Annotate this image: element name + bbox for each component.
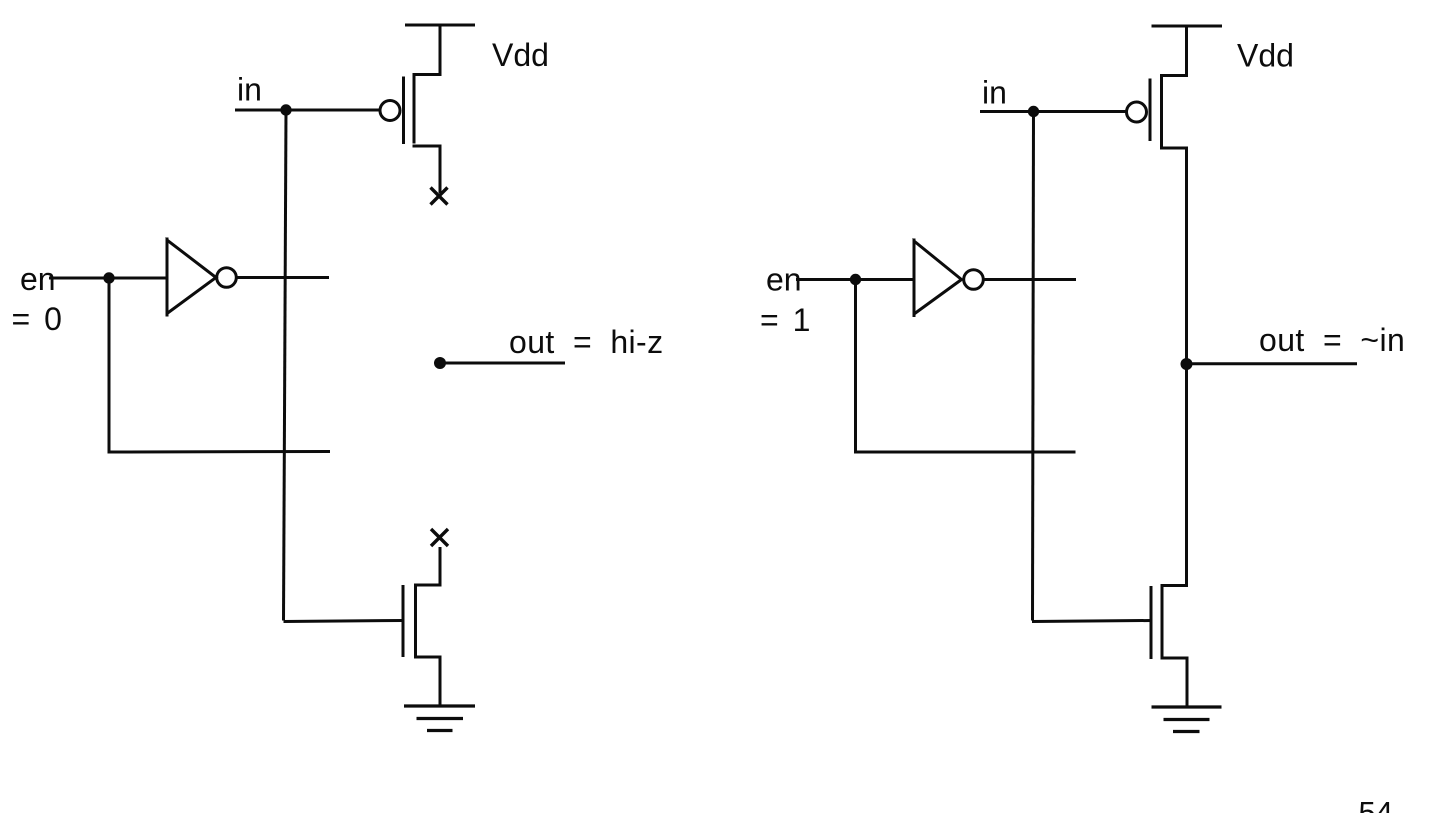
svg-text:Vdd: Vdd — [1237, 38, 1294, 74]
svg-text:54: 54 — [1359, 795, 1393, 813]
svg-text:Vdd: Vdd — [492, 37, 549, 73]
svg-text:in: in — [237, 72, 262, 108]
svg-text:out = hi-z: out = hi-z — [509, 324, 664, 360]
svg-text:en: en — [766, 262, 802, 298]
svg-text:in: in — [982, 75, 1007, 111]
svg-text:= 0: = 0 — [12, 301, 62, 337]
svg-text:out = ~in: out = ~in — [1259, 322, 1405, 358]
svg-text:= 1: = 1 — [760, 302, 810, 338]
svg-text:en: en — [20, 261, 56, 297]
